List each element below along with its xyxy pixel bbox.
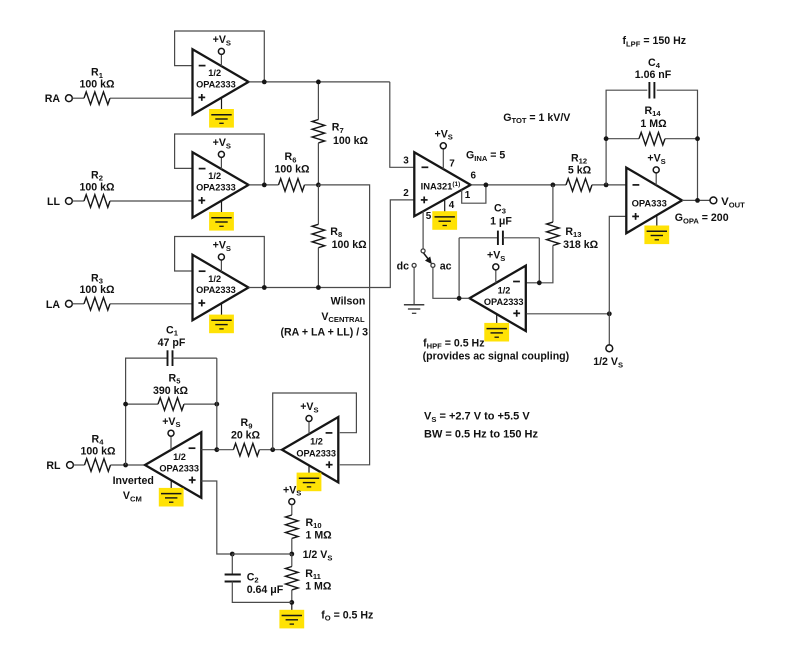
wire OPA333 feedback left vertical	[606, 90, 697, 200]
resistor R1 100 kOhm	[79, 67, 115, 105]
ground A4 (highlighted)	[484, 323, 509, 342]
node A2 output junction	[262, 183, 267, 188]
capacitor C1 47 pF	[158, 324, 217, 366]
svg-text:BW = 0.5 Hz to 150 Hz: BW = 0.5 Hz to 150 Hz	[424, 428, 539, 440]
wire INA ground stem (pin 4)	[444, 199, 446, 217]
svg-text:dc: dc	[397, 260, 409, 272]
wire OPA333 ground stem	[656, 215, 658, 232]
op-amp A6 1/2 OPA2333 (points left)	[145, 432, 201, 497]
node A4 output junction	[457, 296, 462, 301]
wire R6 to Wilson node	[305, 184, 319, 186]
power +Vs INA321	[435, 129, 453, 149]
switch SW1 arm with arrowhead	[424, 253, 432, 263]
capacitor C3 1 uF	[459, 202, 539, 245]
svg-text:3: 3	[403, 156, 409, 167]
node INA output junction	[484, 183, 489, 188]
power +VS OPA333	[647, 153, 665, 173]
op-amp U3 OPA333	[626, 168, 682, 234]
wire +VS stem A2	[220, 157, 222, 169]
svg-text:Wilson: Wilson	[331, 296, 366, 308]
ground A6 (highlighted)	[159, 488, 184, 507]
wire INA pin 5 to switch pole	[422, 211, 424, 249]
node LA input terminal	[46, 299, 72, 311]
svg-text:LL: LL	[47, 196, 60, 208]
wire LL terminal to R2	[72, 200, 84, 202]
node R14 right junction	[695, 136, 700, 141]
power +VS A5	[300, 401, 318, 421]
wire A4 output	[459, 297, 469, 299]
node R5 right junction	[214, 402, 219, 407]
op-amp A4 1/2 OPA2333 (points left)	[470, 266, 526, 331]
svg-text:1 μF: 1 μF	[490, 215, 512, 227]
wire R12 to OPA333 - input	[592, 184, 626, 186]
resistor R14 1 MOhm	[606, 105, 697, 145]
svg-text:1 MΩ: 1 MΩ	[306, 529, 333, 541]
node R13 top junction	[551, 183, 556, 188]
ground A5 (highlighted)	[297, 473, 322, 492]
wire RL terminal to R4	[73, 464, 84, 466]
wire R7 bottom stub	[317, 143, 319, 185]
resistor R8 100 kOhm	[312, 185, 367, 288]
wire A3 ground stem	[221, 303, 223, 320]
resistor R7 100 kOhm	[312, 120, 368, 147]
op-amp A1 1/2 OPA2333	[193, 49, 249, 114]
node R8 bottom junction on A3 output	[316, 285, 321, 290]
wire A2 output to R6	[249, 184, 279, 186]
wire +VS stem A4	[495, 270, 497, 283]
wire R7 top stub	[317, 82, 319, 120]
node C3/R13/- input junction	[537, 280, 542, 285]
node OPA333 output junction	[695, 198, 700, 203]
op-amp A2 1/2 OPA2333	[193, 152, 249, 217]
resistor R5 390 kOhm	[126, 372, 217, 410]
wire C1/R5 feedback left vertical	[126, 358, 168, 465]
svg-text:VS = +2.7 V to +5.5 V: VS = +2.7 V to +5.5 V	[424, 411, 530, 424]
wire A3 feedback loop	[175, 237, 265, 288]
node RA input terminal	[45, 93, 73, 105]
wire R3 to op-amp A3 + input	[110, 303, 193, 305]
node Wilson central junction	[316, 183, 321, 188]
wire A1 output	[249, 81, 390, 83]
node A6 - input junction	[214, 447, 219, 452]
node A3 output junction	[262, 285, 267, 290]
wire half-VS rail up to OPA333 + input	[609, 216, 626, 313]
node R5 left junction	[123, 402, 128, 407]
wire A2 feedback loop	[175, 134, 265, 185]
node RL input terminal	[46, 460, 73, 472]
resistor R4 100 kOhm	[80, 434, 116, 472]
wire A6 + input path to half-VS row	[201, 481, 232, 554]
resistor R2 100 kOhm	[79, 170, 115, 208]
power +VS A3	[213, 240, 231, 260]
resistor R11 1 MOhm	[286, 554, 332, 602]
wire RA terminal to R1	[72, 97, 84, 99]
wire ac contact down to A4 output wire	[433, 268, 459, 299]
svg-text:Inverted: Inverted	[113, 475, 154, 487]
node LL input terminal	[47, 196, 72, 208]
svg-text:GOPA = 200: GOPA = 200	[675, 212, 729, 225]
ground OPA333 (highlighted)	[644, 226, 669, 245]
node C2 top junction	[230, 552, 235, 557]
node OPA333 - input junction	[604, 183, 609, 188]
node VOUT terminal	[710, 197, 717, 204]
ground divider (highlighted)	[279, 610, 304, 629]
svg-text:47 pF: 47 pF	[158, 337, 186, 349]
power +VS A1	[213, 34, 231, 54]
svg-text:1 MΩ: 1 MΩ	[305, 581, 332, 593]
wire A5 feedback loop	[273, 393, 357, 450]
svg-text:0.64 μF: 0.64 μF	[247, 584, 284, 596]
svg-text:100 kΩ: 100 kΩ	[274, 164, 310, 176]
svg-text:100 kΩ: 100 kΩ	[79, 181, 115, 193]
svg-text:1 MΩ: 1 MΩ	[640, 118, 667, 130]
svg-text:100 kΩ: 100 kΩ	[79, 79, 115, 91]
svg-text:OPA333: OPA333	[632, 197, 667, 208]
wire A4 + input to half-VS rail	[527, 313, 610, 315]
svg-text:2: 2	[403, 188, 409, 199]
ground INA321 (highlighted)	[432, 211, 457, 230]
node R14 left junction	[604, 136, 609, 141]
wire dc contact to ground	[413, 268, 415, 305]
wire A6 ground stem	[170, 480, 172, 493]
wire LA terminal to R3	[72, 303, 84, 305]
svg-text:1.06 nF: 1.06 nF	[635, 69, 672, 81]
svg-text:6: 6	[470, 171, 476, 182]
ground A2 (highlighted)	[209, 212, 234, 231]
svg-text:5: 5	[426, 211, 432, 222]
svg-text:(provides ac signal coupling): (provides ac signal coupling)	[423, 351, 570, 363]
wire INA pin1 feedback stub	[462, 185, 486, 203]
svg-text:100 kΩ: 100 kΩ	[80, 445, 116, 457]
resistor R3 100 kOhm	[79, 272, 115, 310]
node 1/2 VS terminal	[606, 345, 613, 352]
op-amp U2 INA321	[414, 152, 470, 216]
power +VS A4	[487, 250, 505, 270]
wire +VS stem A6	[170, 436, 172, 450]
resistor R6 100 kOhm	[274, 151, 310, 191]
wire C3 left plate down to A4 output	[458, 238, 460, 298]
svg-text:7: 7	[449, 159, 455, 170]
svg-text:RA: RA	[45, 93, 61, 105]
label Inverted VCM	[113, 475, 154, 503]
wire A4 - input	[527, 282, 540, 284]
wire R11 ground stem	[291, 602, 293, 615]
wire A5 ground stem	[308, 465, 310, 478]
wire A3 output, runs right then up to INA pin 2	[249, 200, 415, 288]
wire C3 right plate down to A4 - input	[538, 238, 540, 283]
wire half-VS row C2 branch	[232, 553, 291, 555]
svg-text:100 kΩ: 100 kΩ	[79, 284, 115, 296]
node ac throw contact	[431, 263, 435, 267]
wire +Vs stem INA	[442, 149, 444, 169]
wire INA output row	[471, 184, 566, 186]
wire R1 to op-amp A1 + input	[110, 97, 193, 99]
wire R4 to A6 output node	[111, 464, 146, 466]
wire C1/R5 right vertical down to - input	[201, 358, 217, 450]
resistor R9 20 kOhm	[217, 417, 282, 456]
power +VS A6	[162, 416, 180, 436]
svg-text:20 kΩ: 20 kΩ	[231, 430, 261, 442]
wire OPA333 output	[682, 199, 710, 201]
ground A1 (highlighted)	[209, 109, 234, 128]
wire Wilson node to op-amp A5 + input (long vertical)	[318, 185, 369, 465]
power +VS divider top	[283, 484, 301, 504]
svg-text:LA: LA	[46, 299, 60, 311]
ground A3 (highlighted)	[209, 315, 234, 334]
svg-text:4: 4	[449, 200, 455, 211]
op-amp A3 1/2 OPA2333	[193, 255, 249, 320]
node dc throw contact	[412, 263, 416, 267]
svg-text:1: 1	[465, 190, 471, 201]
svg-text:ac: ac	[440, 260, 452, 272]
wire A4 ground stem	[496, 314, 498, 328]
resistor R10 1 MOhm	[286, 505, 333, 554]
wire +VS stem A1	[220, 54, 222, 66]
svg-text:318 kΩ: 318 kΩ	[563, 239, 599, 251]
node A5 output junction	[270, 447, 275, 452]
switch SW1 pole	[421, 249, 425, 253]
svg-text:(RA + LA + LL) / 3: (RA + LA + LL) / 3	[281, 327, 369, 339]
wire +VS stem A3	[220, 260, 222, 272]
node A1 output junction	[262, 80, 267, 85]
label Wilson V_CENTRAL	[281, 296, 369, 339]
node half-VS junction	[607, 311, 612, 316]
wire half-VS down to terminal	[608, 314, 610, 345]
svg-text:390 kΩ: 390 kΩ	[153, 385, 189, 397]
capacitor C2 0.64 uF	[225, 554, 292, 602]
op-amp A5 1/2 OPA2333 (points left)	[282, 417, 338, 482]
node half-VS divider junction	[289, 552, 294, 557]
ground dc (plain)	[404, 305, 424, 314]
svg-text:5 kΩ: 5 kΩ	[568, 164, 592, 176]
wire op1 row down to INA pin 3	[390, 82, 415, 167]
wire +VS stem A5	[308, 422, 310, 435]
resistor R13 318 kOhm	[539, 185, 598, 283]
capacitor C4 1.06 nF	[635, 57, 672, 99]
wire +VS stem OPA333	[655, 173, 657, 185]
resistor R12 5 kOhm	[566, 152, 592, 191]
svg-text:100 kΩ: 100 kΩ	[333, 135, 369, 147]
svg-text:RL: RL	[46, 460, 61, 472]
wire A1 feedback loop (output to - input)	[175, 31, 265, 82]
wire A2 ground stem	[221, 201, 223, 218]
node R11 bottom junction	[289, 600, 294, 605]
wire R2 to op-amp A2 + input	[110, 200, 193, 202]
wire A1 ground stem	[221, 98, 223, 115]
node A6 output junction	[123, 463, 128, 468]
node R7 top junction	[316, 80, 321, 85]
power +VS A2	[213, 137, 231, 157]
svg-text:100 kΩ: 100 kΩ	[332, 239, 368, 251]
